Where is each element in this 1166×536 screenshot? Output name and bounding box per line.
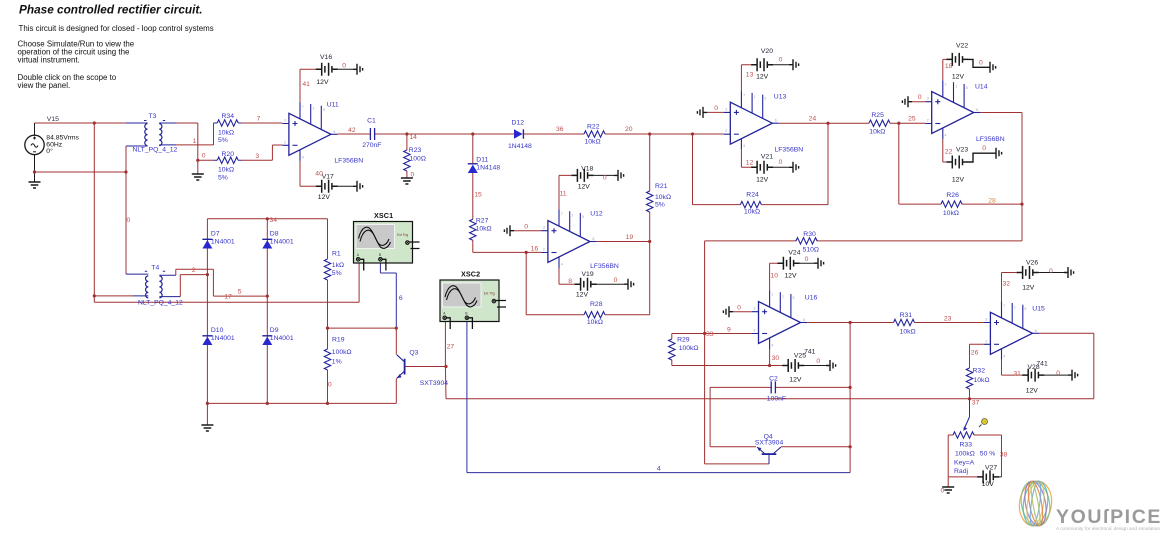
svg-text:42: 42 xyxy=(348,127,356,134)
svg-text:1: 1 xyxy=(754,95,756,99)
svg-text:T3: T3 xyxy=(149,113,157,120)
svg-text:R33: R33 xyxy=(960,442,973,449)
svg-text:0: 0 xyxy=(816,358,820,365)
svg-text:R27: R27 xyxy=(476,218,489,225)
svg-text:T4: T4 xyxy=(151,265,159,272)
svg-text:0: 0 xyxy=(202,153,206,160)
svg-text:14: 14 xyxy=(409,134,417,141)
svg-text:18: 18 xyxy=(945,63,953,70)
svg-text:12V: 12V xyxy=(789,377,802,384)
svg-text:R26: R26 xyxy=(946,192,959,199)
svg-text:12V: 12V xyxy=(578,184,591,191)
svg-text:36: 36 xyxy=(556,126,564,133)
svg-text:10kΩ: 10kΩ xyxy=(869,129,885,136)
svg-text:6: 6 xyxy=(333,130,335,134)
svg-text:3: 3 xyxy=(754,307,756,311)
svg-text:10kΩ: 10kΩ xyxy=(585,139,601,146)
svg-text:5%: 5% xyxy=(218,175,228,182)
svg-text:1N4001: 1N4001 xyxy=(211,335,235,342)
svg-text:R23: R23 xyxy=(409,147,422,154)
svg-text:V19: V19 xyxy=(582,271,594,278)
svg-text:R25: R25 xyxy=(871,112,884,119)
svg-text:LF356BN: LF356BN xyxy=(334,158,363,165)
svg-text:2: 2 xyxy=(725,129,727,133)
svg-text:100nF: 100nF xyxy=(767,396,786,403)
svg-text:V27: V27 xyxy=(985,465,997,472)
svg-text:31: 31 xyxy=(1013,371,1021,378)
svg-text:2: 2 xyxy=(543,248,545,252)
svg-text:3: 3 xyxy=(985,318,987,322)
svg-text:5: 5 xyxy=(764,97,766,101)
svg-text:4: 4 xyxy=(945,134,947,138)
svg-text:100kΩ: 100kΩ xyxy=(679,345,699,352)
svg-text:Radj: Radj xyxy=(954,468,968,475)
svg-text:D7: D7 xyxy=(211,231,220,238)
svg-text:10kΩ: 10kΩ xyxy=(476,226,492,233)
svg-text:2: 2 xyxy=(985,339,987,343)
svg-text:C1: C1 xyxy=(367,118,376,125)
svg-text:Phase controlled rectifier cir: Phase controlled rectifier circuit. xyxy=(19,3,203,17)
svg-text:1N4148: 1N4148 xyxy=(508,143,532,150)
svg-text:U14: U14 xyxy=(975,84,988,91)
svg-text:1N4001: 1N4001 xyxy=(270,335,294,342)
svg-text:U13: U13 xyxy=(774,94,787,101)
svg-text:0: 0 xyxy=(603,175,607,182)
svg-text:7: 7 xyxy=(743,94,745,98)
svg-text:1N4001: 1N4001 xyxy=(270,239,294,246)
svg-text:R31: R31 xyxy=(900,312,913,319)
svg-text:10kΩ: 10kΩ xyxy=(974,377,990,384)
svg-text:3: 3 xyxy=(255,153,259,160)
svg-text:1: 1 xyxy=(1014,305,1016,309)
svg-text:12V: 12V xyxy=(952,74,965,81)
svg-text:R22: R22 xyxy=(587,124,600,131)
svg-text:0°: 0° xyxy=(46,147,53,155)
svg-text:12V: 12V xyxy=(952,177,965,184)
svg-text:6: 6 xyxy=(976,108,978,112)
svg-text:R21: R21 xyxy=(655,183,668,190)
svg-text:R28: R28 xyxy=(590,301,603,308)
svg-text:10kΩ: 10kΩ xyxy=(655,194,671,201)
svg-text:R20: R20 xyxy=(222,151,235,158)
svg-text:1: 1 xyxy=(782,295,784,299)
svg-text:12V: 12V xyxy=(756,177,769,184)
svg-text:Q3: Q3 xyxy=(409,350,418,357)
svg-text:1N4001: 1N4001 xyxy=(211,239,235,246)
svg-text:V15: V15 xyxy=(47,116,59,123)
svg-text:LF356BN: LF356BN xyxy=(590,263,619,270)
svg-text:4: 4 xyxy=(302,155,304,159)
svg-text:V22: V22 xyxy=(956,43,968,50)
svg-text:SXT3904: SXT3904 xyxy=(420,380,449,387)
svg-text:3: 3 xyxy=(284,119,286,123)
svg-text:LF356BN: LF356BN xyxy=(775,147,804,154)
svg-text:23: 23 xyxy=(944,316,952,323)
svg-text:V20: V20 xyxy=(761,48,773,55)
svg-text:25: 25 xyxy=(908,116,916,123)
svg-text:10kΩ: 10kΩ xyxy=(943,210,959,217)
svg-text:4: 4 xyxy=(1003,354,1005,358)
svg-text:12V: 12V xyxy=(784,273,797,280)
svg-text:10kΩ: 10kΩ xyxy=(744,209,760,216)
svg-text:0: 0 xyxy=(328,382,332,389)
svg-text:view the panel.: view the panel. xyxy=(18,81,71,90)
svg-text:4: 4 xyxy=(743,144,745,148)
svg-text:7: 7 xyxy=(302,105,304,109)
svg-text:13: 13 xyxy=(746,72,754,79)
svg-text:7: 7 xyxy=(771,293,773,297)
svg-text:2: 2 xyxy=(927,119,929,123)
svg-text:0: 0 xyxy=(805,256,809,263)
svg-text:41: 41 xyxy=(302,81,310,88)
svg-text:0: 0 xyxy=(411,172,415,179)
svg-text:1: 1 xyxy=(571,214,573,218)
svg-text:YOUſPICE: YOUſPICE xyxy=(1056,506,1162,528)
svg-text:0: 0 xyxy=(779,57,783,64)
svg-text:5%: 5% xyxy=(218,137,228,144)
svg-text:10kΩ: 10kΩ xyxy=(900,329,916,336)
svg-text:6: 6 xyxy=(1035,329,1037,333)
svg-text:U16: U16 xyxy=(805,295,818,302)
svg-text:100Ω: 100Ω xyxy=(410,156,426,163)
svg-text:R30: R30 xyxy=(803,231,816,238)
svg-text:D12: D12 xyxy=(512,120,525,127)
svg-text:D8: D8 xyxy=(270,231,279,238)
svg-text:4: 4 xyxy=(771,344,773,348)
svg-text:0: 0 xyxy=(127,217,131,224)
svg-text:This circuit is designed for c: This circuit is designed for closed - lo… xyxy=(19,24,214,33)
svg-text:34: 34 xyxy=(270,217,278,224)
svg-text:33: 33 xyxy=(706,331,714,338)
svg-text:3: 3 xyxy=(725,107,727,111)
svg-text:7: 7 xyxy=(561,212,563,216)
svg-text:1kΩ: 1kΩ xyxy=(332,262,344,269)
svg-text:A community for electronic des: A community for electronic design and si… xyxy=(1056,526,1160,532)
svg-text:7: 7 xyxy=(257,116,261,123)
svg-text:Key=A: Key=A xyxy=(954,460,975,467)
svg-text:B: B xyxy=(379,253,381,257)
svg-text:U12: U12 xyxy=(590,211,603,218)
svg-text:12V: 12V xyxy=(1026,388,1039,395)
svg-text:V24: V24 xyxy=(788,250,800,257)
svg-text:0: 0 xyxy=(714,105,718,112)
svg-text:15: 15 xyxy=(474,192,482,199)
svg-text:1: 1 xyxy=(955,85,957,89)
svg-text:4: 4 xyxy=(561,263,563,267)
svg-text:R1: R1 xyxy=(332,251,341,258)
svg-text:SXT3904: SXT3904 xyxy=(755,440,784,447)
svg-text:30: 30 xyxy=(772,355,780,362)
svg-text:6: 6 xyxy=(592,237,594,241)
svg-text:10kΩ: 10kΩ xyxy=(218,167,234,174)
svg-text:2: 2 xyxy=(284,140,286,144)
svg-text:27: 27 xyxy=(447,344,455,351)
svg-text:17: 17 xyxy=(224,294,232,301)
svg-text:0: 0 xyxy=(941,488,945,495)
svg-text:V26: V26 xyxy=(1026,260,1038,267)
svg-text:R32: R32 xyxy=(973,368,986,375)
svg-text:XSC2: XSC2 xyxy=(461,270,480,279)
svg-text:NLT_PQ_4_12: NLT_PQ_4_12 xyxy=(138,300,183,307)
svg-text:R24: R24 xyxy=(746,192,759,199)
svg-text:0: 0 xyxy=(1049,268,1053,275)
svg-text:50 %: 50 % xyxy=(980,451,996,458)
svg-text:6: 6 xyxy=(775,119,777,123)
svg-text:R19: R19 xyxy=(332,337,345,344)
svg-text:2: 2 xyxy=(754,329,756,333)
svg-text:10V: 10V xyxy=(982,481,995,488)
svg-text:5: 5 xyxy=(966,86,968,90)
svg-text:R34: R34 xyxy=(222,113,235,120)
svg-text:12V: 12V xyxy=(756,74,769,81)
svg-text:R29: R29 xyxy=(677,337,690,344)
svg-text:C2: C2 xyxy=(769,376,778,383)
svg-text:2: 2 xyxy=(192,267,196,274)
svg-text:5: 5 xyxy=(582,215,584,219)
svg-text:26: 26 xyxy=(971,350,979,357)
svg-text:12V: 12V xyxy=(318,194,331,201)
svg-text:0: 0 xyxy=(524,224,528,231)
svg-text:0: 0 xyxy=(979,60,983,67)
svg-text:28: 28 xyxy=(988,197,996,204)
svg-text:741: 741 xyxy=(804,349,816,356)
svg-text:V16: V16 xyxy=(320,54,332,61)
svg-text:LF356BN: LF356BN xyxy=(976,136,1005,143)
svg-text:38: 38 xyxy=(1000,452,1008,459)
svg-text:U15: U15 xyxy=(1032,306,1045,313)
svg-text:0: 0 xyxy=(614,277,618,284)
svg-text:19: 19 xyxy=(626,234,634,241)
svg-text:7: 7 xyxy=(945,83,947,87)
svg-text:6: 6 xyxy=(399,295,403,302)
svg-text:37: 37 xyxy=(972,400,980,407)
svg-text:0: 0 xyxy=(779,159,783,166)
svg-text:D11: D11 xyxy=(476,157,488,164)
svg-text:0: 0 xyxy=(737,305,741,312)
svg-text:0: 0 xyxy=(342,63,346,70)
svg-text:16: 16 xyxy=(531,246,539,253)
svg-text:741: 741 xyxy=(1036,361,1048,368)
svg-text:12V: 12V xyxy=(576,292,589,299)
svg-text:32: 32 xyxy=(1003,281,1011,288)
svg-text:0: 0 xyxy=(982,145,986,152)
svg-text:10kΩ: 10kΩ xyxy=(587,319,603,326)
svg-text:510Ω: 510Ω xyxy=(803,247,819,254)
svg-text:virtual instrument.: virtual instrument. xyxy=(18,56,80,65)
svg-text:5%: 5% xyxy=(655,202,665,209)
svg-text:12: 12 xyxy=(746,160,754,167)
svg-text:8: 8 xyxy=(568,278,572,285)
svg-text:6: 6 xyxy=(803,318,805,322)
svg-text:D10: D10 xyxy=(211,327,224,334)
svg-text:12V: 12V xyxy=(1022,285,1035,292)
svg-text:Ext Trig: Ext Trig xyxy=(397,233,408,237)
svg-text:5: 5 xyxy=(793,296,795,300)
svg-text:1N4148: 1N4148 xyxy=(476,165,500,172)
svg-text:1%: 1% xyxy=(332,359,342,366)
svg-text:10kΩ: 10kΩ xyxy=(218,129,234,136)
svg-text:V23: V23 xyxy=(956,147,968,154)
svg-text:12V: 12V xyxy=(316,79,329,86)
svg-text:U11: U11 xyxy=(327,102,339,109)
svg-text:100kΩ: 100kΩ xyxy=(955,451,975,458)
svg-text:20: 20 xyxy=(625,126,633,133)
svg-text:7: 7 xyxy=(1003,304,1005,308)
svg-text:9: 9 xyxy=(727,327,731,334)
svg-text:1: 1 xyxy=(312,106,314,110)
svg-text:100kΩ: 100kΩ xyxy=(332,349,352,356)
svg-text:D9: D9 xyxy=(270,327,279,334)
svg-text:1: 1 xyxy=(193,138,197,145)
svg-text:XSC1: XSC1 xyxy=(374,211,393,220)
svg-text:11: 11 xyxy=(560,191,567,198)
svg-text:0: 0 xyxy=(1056,370,1060,377)
svg-text:24: 24 xyxy=(809,116,817,123)
svg-text:22: 22 xyxy=(945,149,953,156)
svg-text:V17: V17 xyxy=(322,174,334,181)
svg-text:V18: V18 xyxy=(581,166,593,173)
svg-text:5: 5 xyxy=(1024,307,1026,311)
svg-text:NLT_PQ_4_12: NLT_PQ_4_12 xyxy=(133,146,178,153)
svg-text:5%: 5% xyxy=(332,270,342,277)
svg-text:3: 3 xyxy=(543,226,545,230)
svg-text:4: 4 xyxy=(657,466,661,473)
svg-text:10: 10 xyxy=(771,273,779,280)
svg-text:5: 5 xyxy=(238,289,242,296)
svg-text:0: 0 xyxy=(918,94,922,101)
svg-text:5: 5 xyxy=(323,108,325,112)
svg-text:B: B xyxy=(465,312,467,316)
svg-text:270nF: 270nF xyxy=(362,142,381,149)
svg-text:Ext Trig: Ext Trig xyxy=(484,292,495,296)
svg-text:3: 3 xyxy=(927,97,929,101)
svg-text:V21: V21 xyxy=(761,154,773,161)
